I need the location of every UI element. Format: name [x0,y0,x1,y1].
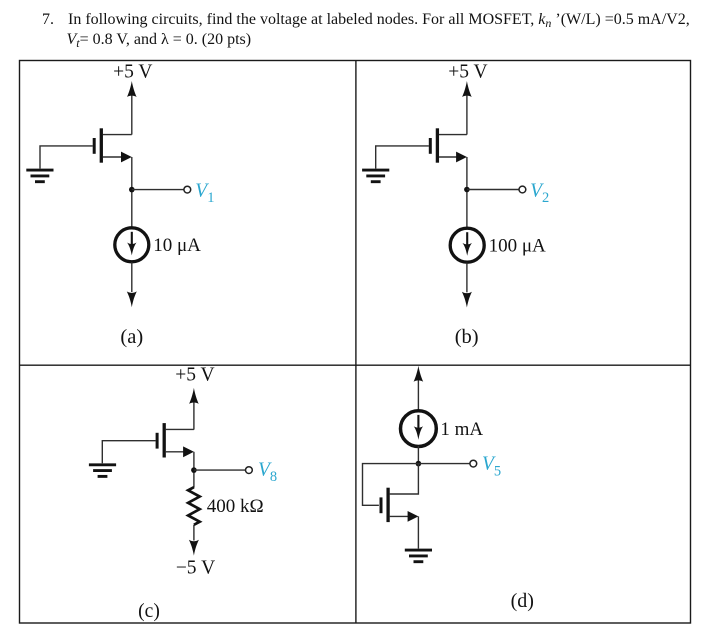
transistor Q4 (NMOS diode-connected): gate bar [380,497,383,513]
wire: feedback gate connection (d) [363,464,419,506]
panel divider vertical [355,61,357,624]
svg-text:10 μA: 10 μA [153,235,201,256]
node V8 junction dot [191,467,197,473]
svg-text:+5 V: +5 V [175,365,214,386]
wire: drain of Q3 to +5V (c) [166,428,194,430]
open terminal circle V5 [470,460,477,467]
svg-text:400 kΩ: 400 kΩ [207,496,264,517]
+5V supply arrow (a) [127,81,137,135]
ground symbol (a) [26,170,53,182]
transistor Q1: source arrow [103,152,132,163]
wire: drain of Q2 to +5V (b) [439,134,467,136]
panel divider horizontal [20,364,691,366]
wire: source of Q3 to node V8 [193,452,195,488]
wire: node to V8 terminal [194,469,246,471]
+5V supply arrow (c) [189,388,199,430]
current source I2 100uA [450,228,484,262]
wire: source of Q1 down to node V1 [131,157,133,227]
svg-text:+5 V: +5 V [448,61,487,82]
transistor Q4 (NMOS diode-connected): channel bar [386,488,389,522]
svg-text:Vt= 0.8 V, and λ = 0. (20 pts): Vt= 0.8 V, and λ = 0. (20 pts) [67,31,252,50]
svg-text:(c): (c) [138,601,160,622]
positive rail arrow (d) [414,366,424,411]
wire: source of Q2 down to node V2 [466,157,468,227]
ground symbol (b) [362,170,389,182]
transistor Q1 (NMOS): gate bar [93,138,96,154]
node V1 junction dot [129,187,135,193]
wire: current source to node V5 [417,446,419,464]
transistor Q3 (NMOS): gate bar [156,433,159,449]
current source I1 10uA [115,228,149,262]
wire+arrow: current source to negative rail (b) [462,263,472,308]
wire: node to V2 terminal [467,189,519,191]
transistor Q4: source arrow [390,511,419,522]
wire: drain of Q4 up to node V5 [390,464,419,494]
current source I4 1mA [401,411,437,447]
transistor Q3: source arrow [166,446,194,457]
wire: node to V1 terminal [132,189,184,191]
svg-text:100 μA: 100 μA [489,235,546,256]
+5V supply arrow (b) [462,81,472,135]
transistor Q2 (NMOS): gate bar [429,138,432,154]
open terminal circle V2 [519,186,526,193]
resistor R1 400k zigzag [188,487,200,525]
node V2 junction dot [464,187,470,193]
svg-text:(d): (d) [511,590,534,612]
wire: gate of Q3 to ground (c) [102,441,155,464]
ground symbol (d) [405,550,432,562]
node V5 junction dot [416,461,422,467]
svg-text:(b): (b) [455,326,479,348]
svg-text:+5 V: +5 V [113,61,152,82]
open terminal circle V8 [246,467,253,474]
ground symbol (c) [89,465,116,477]
svg-text:(a): (a) [120,326,143,348]
open terminal circle V1 [184,186,191,193]
wire: gate of Q2 to ground (b) [376,146,429,169]
svg-text:7.In following circuits, find: 7.In following circuits, find the voltag… [42,11,690,30]
svg-text:1 mA: 1 mA [440,419,483,440]
transistor Q2 (NMOS): channel bar [436,128,439,162]
wire: gate of Q1 to ground (a) [40,146,93,169]
wire: source of Q4 to ground (d) [417,516,419,548]
transistor Q1 (NMOS): channel bar [100,128,103,162]
svg-text:−5 V: −5 V [176,557,215,578]
transistor Q3 (NMOS): channel bar [163,423,166,457]
wire+arrow: resistor to -5V rail (c) [189,525,199,556]
wire+arrow: current source to negative rail (a) [127,262,137,307]
wire: drain of Q1 to +5V (a) [103,134,132,136]
transistor Q2: source arrow [439,152,467,163]
wire: node to V5 terminal [418,463,469,465]
